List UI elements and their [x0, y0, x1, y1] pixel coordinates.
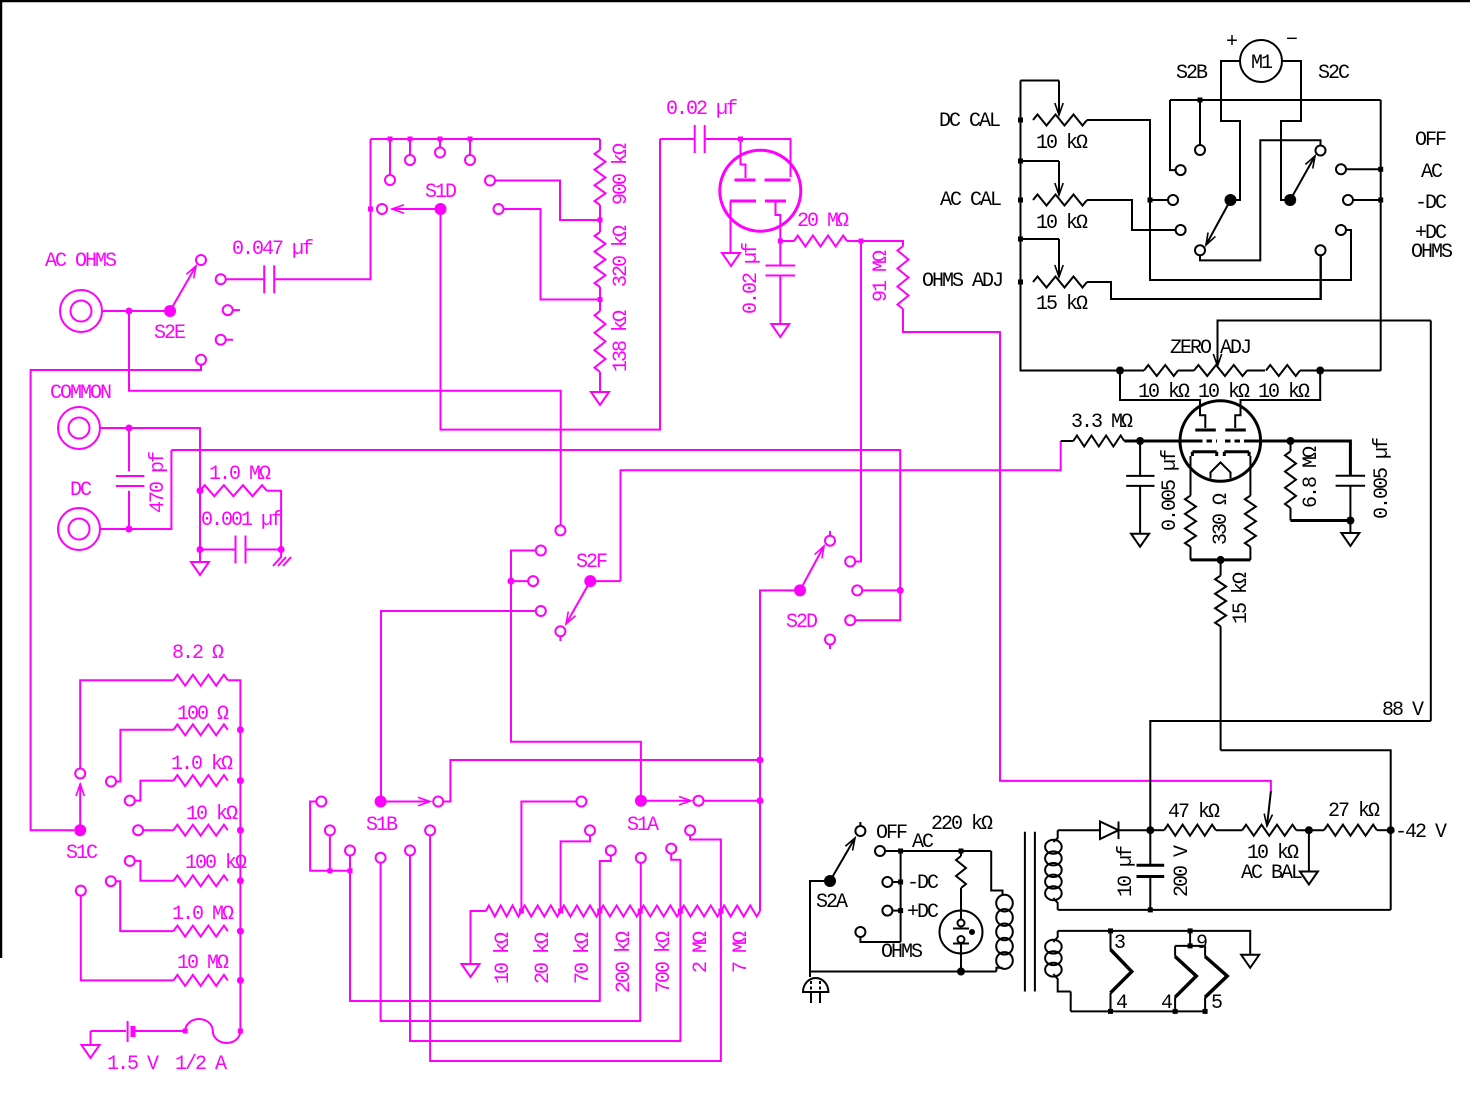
svg-text:OHMS ADJ: OHMS ADJ [922, 270, 1002, 293]
svg-text:OHMS: OHMS [881, 941, 923, 964]
resistor 138 kohm [595, 300, 606, 393]
svg-text:10 MΩ: 10 MΩ [177, 952, 229, 975]
wire S2A OHMS tie [860, 937, 900, 942]
wire heater bottom rail [1071, 992, 1205, 1012]
svg-text:700 kΩ: 700 kΩ [653, 931, 676, 993]
label 1.0 Mohm ladder [172, 903, 234, 926]
wire S1C c1 to 8.2 ohm [80, 680, 173, 768]
junction HV rail bottom [1148, 907, 1153, 912]
switch S1C contact 5 [125, 856, 135, 866]
tube V1 bar upper-right [765, 179, 791, 182]
resistor 20 Mohm [780, 236, 861, 247]
wire S1C c3 to 1.0 kohm [135, 781, 174, 801]
switch S2F wiper arrow [566, 581, 590, 624]
wire S2D rotor to range string [760, 590, 794, 911]
wire DC CAL right [1087, 120, 1351, 280]
wire S1D bus [371, 138, 601, 140]
label pin 5 [1211, 992, 1222, 1015]
svg-text:10 kΩ: 10 kΩ [492, 932, 515, 984]
wire S2A rotor to rail [810, 881, 996, 972]
potentiometer OHMS ADJ 15 kohm [1021, 239, 1088, 288]
junction S1C bus 1kohm [237, 777, 244, 784]
switch S2E rotor [164, 305, 176, 317]
wire S1C c6 to 1.0 Mohm [116, 881, 174, 931]
svg-text:3: 3 [1114, 932, 1125, 955]
resistor 1.0 kohm [174, 775, 228, 786]
resistor 10 kohm range [486, 906, 522, 917]
label OHMS S2A [881, 941, 923, 964]
switch S2A wiper arrow [830, 838, 855, 881]
label AC CAL value [1036, 212, 1088, 235]
label 200 V [1171, 845, 1194, 897]
label 47 kohm [1168, 801, 1220, 824]
label 70 kohm range [572, 932, 595, 984]
resistor 47 kohm [1150, 825, 1242, 836]
wire zero right to S2C bus [1320, 370, 1381, 372]
transformer heater winding [1045, 931, 1071, 992]
wire S1A R1 down [521, 802, 576, 912]
svg-text:DC: DC [70, 479, 92, 502]
wire S2D contact4 feed [855, 590, 900, 620]
label pin 3 [1114, 932, 1125, 955]
ground below cathode cap [771, 324, 789, 337]
label 88 V [1382, 699, 1424, 722]
tube V1 cathode bar lower-left [730, 200, 756, 203]
label S1B [366, 814, 398, 837]
potentiometer 10 kohm AC BAL [1242, 791, 1296, 836]
label 20 Mohm [797, 210, 849, 233]
jack J1 AC OHMS [60, 290, 102, 332]
svg-text:1.0 kΩ: 1.0 kΩ [171, 753, 233, 776]
potentiometer DC CAL 10 kohm [1021, 81, 1088, 126]
wire AC OHMS node to S2F top contact [129, 311, 561, 525]
svg-text:S2D: S2D [786, 611, 817, 634]
switch S1A rotor [635, 795, 647, 807]
label 200 kohm range [613, 931, 636, 993]
switch S2D contact 2 [845, 557, 855, 567]
switch S2D contact 1 [825, 531, 835, 546]
lamp PL2 [1175, 946, 1196, 1012]
wire S1B L5 to tap net3 [410, 856, 680, 1042]
svg-text:+: + [1226, 31, 1237, 54]
resistor 10 Mohm ladder [174, 975, 228, 986]
label 700 kohm range [653, 931, 676, 993]
junction 0.001 uf right [278, 546, 285, 553]
junction OHMS ADJ left [1018, 280, 1023, 285]
label AC S2A [912, 831, 934, 854]
wire plug to S2A [809, 971, 811, 977]
label 900 kohm [610, 143, 633, 205]
junction DC node [126, 526, 133, 533]
switch S1C contact 1 [75, 769, 85, 779]
label -DC position [1415, 192, 1447, 215]
switch S2E wiper arrow [170, 266, 196, 311]
svg-text:20 kΩ: 20 kΩ [532, 932, 555, 984]
svg-text:200 kΩ: 200 kΩ [613, 931, 636, 993]
svg-text:88 V: 88 V [1382, 699, 1424, 722]
diode rectifier [1058, 822, 1151, 840]
svg-text:-42 V: -42 V [1395, 821, 1447, 844]
svg-text:20 MΩ: 20 MΩ [797, 210, 849, 233]
wire S1A R6 down [690, 835, 721, 911]
tube V2 grid dashes right [1225, 440, 1245, 443]
label 1.0 kohm [171, 753, 233, 776]
label 100 ohm [177, 703, 229, 726]
label 10 kohm ladder [186, 803, 238, 826]
wire S2B contact2 tie [1170, 100, 1176, 170]
svg-text:70 kΩ: 70 kΩ [572, 932, 595, 984]
svg-text:220 kΩ: 220 kΩ [931, 813, 993, 836]
ground range string [462, 911, 486, 977]
junction V1 plate node [738, 137, 743, 142]
svg-text:S2E: S2E [154, 322, 185, 345]
svg-text:-DC: -DC [907, 872, 939, 895]
junction S2D contact3 node [897, 587, 904, 594]
svg-text:OFF: OFF [1415, 129, 1446, 152]
junction S1C bus 10Mohm [237, 977, 244, 984]
svg-text:OFF: OFF [876, 822, 907, 845]
switch S1B contact L1 [316, 797, 326, 807]
switch S1C rotor [74, 824, 86, 836]
svg-text:S1A: S1A [627, 814, 659, 837]
resistor 20 kohm range [521, 906, 560, 917]
switch S1C contact 6 [106, 876, 116, 886]
chassis ground at 0.001 uf right [273, 550, 291, 567]
battery 1.5 V [91, 1021, 186, 1042]
wire zero mid2 [1247, 370, 1265, 372]
junction range tap2 [558, 909, 563, 914]
wire meter plus lead [1221, 61, 1240, 200]
switch S2F contact 2 [536, 546, 546, 556]
svg-text:91 MΩ: 91 MΩ [870, 250, 893, 302]
junction ZERO ADJ right [1316, 367, 1324, 375]
svg-text:S1B: S1B [366, 814, 398, 837]
resistor 330 ohm right [1245, 456, 1256, 560]
wire cathode bottom bar [1191, 558, 1251, 561]
svg-text:100 Ω: 100 Ω [177, 703, 229, 726]
tube V2 grid dashes left [1197, 440, 1217, 443]
capacitor 0.02 uf cathode [766, 241, 796, 324]
switch S2D rotor [794, 584, 806, 596]
tube V2 plate bar left [1195, 429, 1216, 432]
wire V1 left grid drop [1120, 371, 1205, 429]
junction range tap1 [519, 909, 524, 914]
wire cal pot bus [1021, 81, 1121, 371]
label 1.5 V [107, 1053, 159, 1076]
switch S2B contact 3 [1168, 195, 1178, 205]
label DC CAL value [1036, 132, 1088, 155]
switch S1B rotor [375, 796, 387, 808]
svg-text:27 kΩ: 27 kΩ [1328, 800, 1380, 823]
tube V2 cathode bar left [1192, 452, 1216, 456]
label 330 ohm [1210, 493, 1233, 545]
resistor 91 Mohm [861, 241, 1271, 791]
wire 6.8 Mohm bottom tie [1291, 519, 1351, 522]
junction AC CAL left [1018, 198, 1023, 203]
label AC position [1421, 161, 1443, 184]
tube V2 envelope [1180, 401, 1261, 482]
resistor 100 ohm [174, 724, 228, 735]
capacitor 470 pf [116, 428, 145, 529]
wire S2F contact2 to junction [511, 551, 536, 582]
switch S1B contact L5 [405, 846, 415, 856]
tube V3 top pin [953, 920, 969, 929]
switch S2F contact 5 [555, 626, 565, 641]
wire S2F rotor lead [596, 580, 621, 582]
wire S1D contact7 to divider tap [504, 209, 601, 300]
junction cathode bottom [1217, 556, 1225, 564]
junction S1C bus 10kohm [237, 827, 244, 834]
switch S1B contact arrow-target [433, 797, 443, 807]
junction S2D-S1B node [757, 757, 764, 764]
label DC [70, 479, 92, 502]
ground V1 cathode [722, 253, 740, 266]
label 91 Mohm [870, 250, 893, 302]
svg-text:-DC: -DC [1415, 192, 1447, 215]
junction divider tap2 [598, 297, 603, 302]
label 470 pf [147, 452, 170, 513]
switch S2C wiper arrow [1290, 156, 1315, 200]
svg-text:100 kΩ: 100 kΩ [185, 852, 247, 875]
switch S2F contact 4 [536, 606, 546, 616]
label 10 Mohm ladder [177, 952, 229, 975]
wire zero mid1 [1120, 370, 1194, 372]
switch S2B contact 5 [1195, 245, 1205, 255]
label 0.02 uf cathode [740, 243, 763, 314]
wire S1C c4 to 10 kohm [143, 829, 173, 831]
wire S2A contact bus [900, 851, 902, 942]
label AC CAL [940, 189, 1001, 212]
svg-text:OHMS: OHMS [1411, 241, 1453, 264]
switch S2C contact 2 [1336, 164, 1346, 174]
wire S1B contact L1 down [310, 802, 350, 871]
svg-text:ZERO ADJ: ZERO ADJ [1170, 337, 1250, 360]
junction S2C -DC tap [1378, 198, 1383, 203]
svg-text:S2A: S2A [816, 891, 848, 914]
switch S1D contact 4 [435, 148, 445, 158]
junction range tap4 [638, 909, 643, 914]
label meter minus [1286, 29, 1297, 52]
resistor 220 kohm [956, 851, 966, 920]
switch S1D contact 2 [385, 175, 395, 185]
svg-text:S1C: S1C [66, 842, 98, 865]
label +DC position [1415, 222, 1447, 245]
junction S2F contacts [508, 578, 515, 585]
svg-text:6.8 MΩ: 6.8 MΩ [1300, 446, 1323, 508]
switch S1B wiper arrow [381, 797, 430, 805]
switch S2C contact 3 [1343, 195, 1353, 205]
switch S2A rotor [824, 875, 836, 887]
junction S1B tie L3 [348, 868, 353, 873]
switch S2D contact 3 [852, 585, 900, 595]
switch S1D contact 6 [485, 176, 495, 186]
wire DC input bus to S2D [171, 450, 900, 590]
ground 0.005 uf right [1341, 521, 1359, 547]
junction 0.005 uf right bottom [1346, 517, 1354, 525]
label 100 kohm ladder [185, 852, 247, 875]
switch S1A wiper arrow [641, 797, 691, 805]
svg-text:5: 5 [1211, 992, 1222, 1015]
switch S2E contact 2 [216, 274, 226, 284]
jack J3 DC [58, 508, 100, 550]
label 10 uf [1115, 846, 1138, 897]
label S2C [1318, 62, 1350, 85]
label pin 9 [1196, 932, 1207, 955]
label 7 Mohm range [730, 931, 753, 973]
svg-text:S2B: S2B [1176, 62, 1208, 85]
resistor 10 kohm zero left [1144, 365, 1178, 376]
label S2E [154, 322, 185, 345]
tube V1 bar lower-right [765, 200, 786, 203]
switch S2D wiper arrow [800, 546, 824, 590]
junction 20 Mohm left [778, 239, 783, 244]
svg-text:8.2 Ω: 8.2 Ω [172, 642, 224, 665]
label 10 kohm range [492, 932, 515, 984]
svg-text:DC CAL: DC CAL [939, 110, 1000, 133]
svg-text:AC: AC [1421, 161, 1443, 184]
label 320 kohm [610, 225, 633, 287]
switch S2F rotor [584, 575, 596, 587]
svg-text:7 MΩ: 7 MΩ [730, 931, 753, 973]
switch S2D contact 4 [845, 615, 855, 625]
junction heater tap 3 [1108, 928, 1113, 933]
junction S1C bus 100ohm [237, 726, 244, 733]
wire S1B L6 to tap net4 [430, 835, 721, 1061]
resistor 900 kohm [595, 139, 606, 220]
switch S2C contact 1 [1316, 146, 1326, 156]
border frame left edge [0, 0, 2, 958]
wire S1A R2 down [561, 835, 590, 911]
potentiometer ZERO ADJ 10 kohm [1194, 321, 1431, 377]
label S2D [786, 611, 817, 634]
svg-text:47 kΩ: 47 kΩ [1168, 801, 1220, 824]
wire V1 right grid drop [1235, 371, 1320, 429]
svg-text:+DC: +DC [907, 901, 939, 924]
capacitor 0.005 uf left [1126, 441, 1154, 534]
wire COMMON jack to R-C network [101, 428, 200, 561]
junction V2 left grid node [1136, 437, 1144, 445]
switch S1B contact L6 [425, 825, 435, 835]
label S1A [627, 814, 659, 837]
wire S1C c2 to 100 ohm [116, 730, 174, 782]
switch S1A contact arrow-target [694, 796, 704, 806]
wire V1 grid lead lower-right [776, 201, 781, 241]
wire S1D contact6 to divider tap [495, 181, 600, 221]
label 0.02 uf coupling [666, 98, 737, 121]
tube V2 cathode bar right [1224, 452, 1249, 456]
wire heater top rail [1058, 931, 1251, 955]
switch S2B rotor [1225, 194, 1237, 206]
switch S2C contact 5 [1316, 245, 1326, 255]
svg-text:AC BAL: AC BAL [1241, 862, 1302, 885]
junction 0.001 uf left [197, 546, 204, 553]
svg-text:10 kΩ: 10 kΩ [1036, 132, 1088, 155]
wire S2B contact5 to S2C contact1 [1200, 140, 1321, 260]
svg-text:470 pf: 470 pf [147, 452, 170, 513]
svg-text:1.5 V: 1.5 V [107, 1053, 159, 1076]
border frame top edge [0, 0, 1470, 2]
junction S1A contact node [757, 797, 764, 804]
switch S2F contact 1 [555, 525, 565, 535]
switch S1D contact 1 [368, 204, 387, 214]
tube V3 gas dot [969, 929, 975, 935]
transformer core [1025, 832, 1035, 992]
svg-text:0.02 µf: 0.02 µf [740, 243, 763, 314]
junction heater bottom left [1108, 1009, 1113, 1014]
label S2A [816, 891, 848, 914]
junction DC CAL left [1018, 118, 1023, 123]
junction S1D bus tap3 [438, 137, 443, 148]
label OHMS ADJ value [1036, 293, 1088, 316]
wire S2C bus down [1380, 100, 1382, 371]
junction divider tap1 [598, 218, 603, 223]
label COMMON [50, 382, 111, 405]
junction OHMS ADJ wiper tap [1018, 237, 1023, 242]
wire AC CAL right [1087, 200, 1171, 230]
switch S1C contact 3 [125, 796, 135, 806]
label 20 kohm range [532, 932, 555, 984]
wire S1D rotor to 0.02uf [441, 139, 661, 430]
junction S1B tie L2 [327, 868, 332, 873]
switch S2E contact 4 [216, 335, 233, 345]
svg-text:1/2 A: 1/2 A [175, 1053, 227, 1076]
switch S1B contact L3 [345, 846, 355, 871]
label 27 kohm [1328, 800, 1380, 823]
ground below divider [591, 392, 609, 405]
junction 20 Mohm right [859, 239, 864, 244]
label -42 V [1395, 821, 1447, 844]
junction S2A -DC [898, 880, 903, 885]
jack J2 COMMON [58, 407, 100, 449]
junction heater bottom mid [1173, 1009, 1178, 1014]
junction range tap3 [597, 909, 602, 914]
switch S1D wiper arrow [392, 205, 441, 213]
label pin 4 right [1161, 992, 1172, 1015]
wire V1 plate lead [741, 139, 746, 178]
wire 15 kohm to -42V rail [1221, 750, 1391, 830]
junction COMMON node [126, 425, 133, 432]
svg-text:0.005 µf: 0.005 µf [1371, 438, 1394, 519]
svg-text:−: − [1286, 29, 1297, 52]
svg-text:COMMON: COMMON [50, 382, 111, 405]
wire S1A R5 down [671, 854, 680, 911]
switch S2B contact 1 [1195, 145, 1205, 155]
wire AC OHMS jack to S2E rotor [102, 310, 164, 312]
switch S1C contact 7 [76, 886, 86, 896]
wire S2C contact3 tie [1353, 199, 1381, 201]
wire 1.0 Mohm right leg [267, 491, 281, 550]
svg-text:AC CAL: AC CAL [940, 189, 1001, 212]
tube V3 ballast envelope [940, 911, 983, 954]
junction heater tap 9 [1188, 928, 1193, 933]
label 1/2 A [175, 1053, 227, 1076]
switch S2A contact +DC [882, 906, 900, 916]
wire S2C contact2 tie [1346, 168, 1381, 170]
label 3.3 Mohm [1071, 411, 1133, 434]
label 15 kohm [1230, 572, 1253, 624]
label 0.047 uf [232, 238, 313, 261]
wire 88V line [1150, 721, 1431, 830]
switch S2F contact 3 [511, 576, 538, 586]
junction V2 right grid node [1287, 437, 1295, 445]
switch S2A contact OFF [855, 822, 865, 836]
svg-text:0.001 µf: 0.001 µf [201, 509, 282, 532]
label 2 Mohm range [690, 931, 713, 973]
wire S2B top tie line [1170, 99, 1381, 101]
wire S2B contact4 tie [1171, 229, 1176, 231]
svg-text:10 kΩ: 10 kΩ [1036, 212, 1088, 235]
label ZERO ADJ [1170, 337, 1250, 360]
